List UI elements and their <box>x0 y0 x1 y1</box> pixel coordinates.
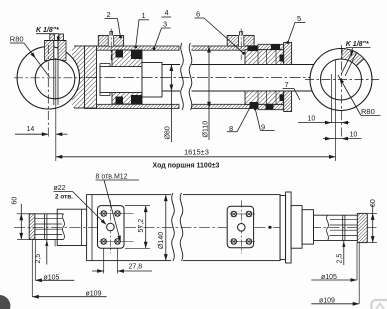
right boss hole <box>239 35 244 46</box>
dim d110 <box>208 46 210 140</box>
left boss nipple <box>109 32 111 36</box>
left plate vertical centerline <box>109 201 111 254</box>
bottom barrel body <box>87 195 281 261</box>
left plate bolt hole tr <box>115 211 120 216</box>
right plate bolt hole tl <box>231 211 236 216</box>
ring B <box>286 192 292 263</box>
right boss nipple <box>239 32 241 36</box>
right eye outer circle <box>310 49 372 111</box>
svg-text:3: 3 <box>163 20 167 29</box>
piston nut lip bottom <box>100 95 110 97</box>
right pin break curve <box>326 215 328 240</box>
gland end ring top <box>284 43 292 65</box>
gland cylinder bottom view <box>291 206 302 249</box>
svg-text:ø109: ø109 <box>86 290 102 297</box>
piston seal top right <box>131 50 142 59</box>
svg-text:1: 1 <box>142 11 146 20</box>
svg-text:8 отв.М12: 8 отв.М12 <box>96 174 128 181</box>
left pin hatched cap <box>29 214 35 240</box>
left flange plate <box>98 206 125 249</box>
right eye vertical centerline <box>341 45 343 139</box>
gland part line bottom <box>257 91 259 104</box>
svg-text:K 1/8"*: K 1/8"* <box>36 27 59 34</box>
svg-text:14: 14 <box>27 126 35 133</box>
right plate bolt hole br <box>246 239 251 244</box>
piston seal bottom right <box>131 95 142 104</box>
left eye inner circle <box>35 59 75 99</box>
left plate bolt hole bl <box>101 239 106 244</box>
right eye port wedge <box>342 49 364 66</box>
right eye inner circle <box>321 59 362 100</box>
svg-text:2,5: 2,5 <box>35 254 42 264</box>
dim d80 <box>170 65 172 143</box>
left pin break curve <box>62 214 64 240</box>
left eye horizontal centerline <box>14 77 86 79</box>
left eye outer circle <box>17 47 79 109</box>
wire barrel outline to eye bottom <box>74 107 85 109</box>
left pin stripes <box>35 217 63 219</box>
left port axis extension <box>55 58 57 161</box>
gland bottom block <box>245 91 284 104</box>
ring A <box>280 196 286 260</box>
right plate bolt hole tr <box>246 211 251 216</box>
wire barrel outline to eye top <box>74 45 85 47</box>
left eye hub <box>57 209 86 245</box>
gland seal top2 <box>271 45 280 50</box>
left plate center hole <box>107 223 115 231</box>
left port drill lines <box>53 41 55 106</box>
svg-text:R80: R80 <box>361 107 375 116</box>
left eye weld hatch <box>72 46 85 108</box>
svg-text:Ø80: Ø80 <box>165 126 172 139</box>
svg-text:4: 4 <box>165 8 169 17</box>
right port drill lines <box>341 50 353 74</box>
main axis centerline <box>86 77 310 79</box>
piston rod bottom line <box>162 90 314 92</box>
right flange plate <box>227 206 253 248</box>
right port projection line B <box>335 60 337 161</box>
cylinder barrel bottom wall <box>85 104 180 108</box>
left barrel port boss <box>98 36 123 47</box>
gland part line top <box>257 50 259 65</box>
svg-text:10: 10 <box>308 116 316 123</box>
dim 57.2 <box>125 205 150 207</box>
piston seal top left <box>116 50 124 57</box>
dim d140 <box>165 195 167 261</box>
right plate vertical centerline <box>240 201 242 254</box>
grease dot <box>268 226 271 229</box>
right plate center hole <box>238 224 246 232</box>
left eye port boss K1/8 <box>45 41 54 61</box>
right plate bolt hole bl <box>231 239 236 244</box>
svg-text:60: 60 <box>370 199 377 207</box>
svg-text:Ø110: Ø110 <box>202 121 209 138</box>
svg-text:2,5: 2,5 <box>336 254 343 264</box>
left plate bolt hole br <box>115 239 120 244</box>
gland seal bottom1 <box>250 102 259 109</box>
barrel break lines <box>180 43 192 111</box>
right plate hole row lines <box>230 213 256 215</box>
svg-text:6: 6 <box>196 10 200 19</box>
left eye vertical centerline <box>47 45 49 137</box>
bottom weld seam <box>91 195 93 261</box>
right pin groove <box>342 215 344 240</box>
left plate bolt hole tl <box>101 211 106 216</box>
rod collar <box>142 63 162 98</box>
right eye horizontal centerline <box>305 79 379 81</box>
bottom axis centerline <box>14 226 378 228</box>
gland seal bottom2 <box>266 104 274 110</box>
watermark corner blob <box>0 295 10 309</box>
svg-text:K 1/8"*: K 1/8"* <box>346 41 369 48</box>
piston hatch body <box>112 50 142 104</box>
right port projection line A <box>331 74 333 123</box>
left boss hole <box>108 35 114 46</box>
left port nipple tabs <box>50 34 55 41</box>
left boss axis <box>110 29 112 61</box>
svg-text:Ход поршня 1100±3: Ход поршня 1100±3 <box>153 162 220 169</box>
gland seal top3 <box>280 55 290 62</box>
gland seal bottom3 <box>280 94 290 101</box>
svg-text:ø22: ø22 <box>54 185 66 192</box>
left plate hole row lines <box>99 213 134 215</box>
svg-text:Ø140: Ø140 <box>158 232 165 249</box>
svg-text:57,2: 57,2 <box>138 219 145 233</box>
piston rod top line <box>162 64 314 66</box>
svg-text:2 отв.: 2 отв. <box>55 193 73 200</box>
cylinder barrel top wall <box>85 46 180 50</box>
svg-text:7: 7 <box>285 80 289 89</box>
rear end cap hatch <box>85 46 97 108</box>
gland outer sleeve bottom <box>258 104 284 109</box>
right pin body <box>314 214 358 216</box>
piston seal bottom left <box>116 97 124 104</box>
gland outer sleeve top <box>258 44 284 49</box>
piston rod end recess <box>100 67 142 93</box>
right pin stripes <box>330 219 357 221</box>
gland seal top1 <box>248 45 258 51</box>
watermark rounded square A <box>372 300 387 309</box>
rod hub bottom view <box>302 210 313 244</box>
svg-text:1615±3: 1615±3 <box>184 148 209 157</box>
dim 27.8 <box>103 248 105 273</box>
gland top block <box>245 50 284 65</box>
svg-text:5: 5 <box>297 14 301 23</box>
left pin body <box>35 213 64 215</box>
right pin hatched cap <box>357 213 367 242</box>
left pin groove <box>44 214 46 240</box>
svg-text:2: 2 <box>107 10 111 19</box>
svg-text:R80: R80 <box>10 35 24 44</box>
right barrel port boss <box>227 36 254 47</box>
svg-text:10: 10 <box>350 132 358 139</box>
right boss axis <box>240 29 242 61</box>
piston nut lip top <box>100 63 110 65</box>
svg-text:27,8: 27,8 <box>129 263 143 270</box>
bottom break lines <box>171 193 183 262</box>
svg-text:60: 60 <box>12 197 19 205</box>
gland end ring bottom <box>284 91 292 112</box>
